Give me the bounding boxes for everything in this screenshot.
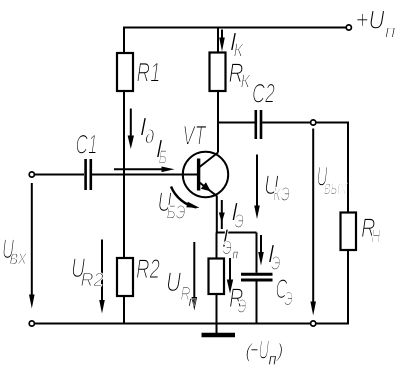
resistor RK [210,53,226,92]
resistor RN [341,213,357,251]
node bottom left terminal [29,321,34,326]
wire C2 to output node [262,122,311,124]
wire emitter vertical [216,196,218,233]
label RE [230,288,246,312]
label URp [168,272,191,300]
label IK [231,33,244,57]
wire right rail upper [347,122,349,213]
label Uvyx [318,167,347,194]
label IEp [223,229,232,254]
arrow IE emitter [219,200,225,229]
resistor R1 [117,53,133,91]
wire collector node to C2 [218,122,255,124]
label Id [141,118,154,144]
label -Up [246,341,282,362]
wire output node to right rail [316,122,349,124]
label UR2 [72,258,103,286]
wire C1 to base [92,174,197,176]
arrow Uvyx [310,129,316,316]
label Uvx [3,239,27,264]
wire RK bottom to collector [217,91,219,153]
capacitor C1 [86,159,91,190]
wire RE top lead [216,233,218,259]
node output terminal [311,120,316,125]
capacitor C2 [256,110,261,139]
arrow Uvx [29,183,35,309]
label UBE [159,192,185,218]
label R2 [137,259,160,278]
arrow IE through CE [258,235,264,266]
arrow IK [219,30,225,52]
ground stub [216,324,218,334]
ground [202,333,236,338]
label C1 [76,135,96,154]
arrow UBE curved [171,187,200,209]
resistor R2 [117,258,133,296]
label CE [276,279,292,305]
label C2 [253,84,275,103]
wire emitter split horizontal [217,232,257,234]
wire R2 bottom lead [123,296,125,324]
label +Up [357,11,395,38]
arrow IEp through RE [227,258,233,294]
transistor VT emitter lead [200,183,218,197]
wire R1 top lead [123,27,125,54]
wire CE top lead [256,233,258,273]
wire RE bottom lead [216,294,218,324]
arrow IB [114,167,175,173]
transistor VT circle [183,152,228,197]
wire right rail lower [347,250,349,324]
node bottom right terminal [311,321,316,326]
label RN [362,218,381,242]
arrow URp [192,242,198,311]
wire top rail [124,27,347,29]
arrow UR2 [99,240,105,314]
node +Up terminal [346,25,351,30]
capacitor CE [241,274,273,280]
label VT [184,126,207,145]
arrow UKE [254,155,260,220]
label UKE [266,175,290,200]
node input terminal [29,172,34,177]
label IE emitter [232,203,244,228]
wire input to C1 [34,174,84,176]
resistor RE [209,259,225,295]
wire divider mid (R1 bottom to R2 top) [123,91,125,258]
wire CE bottom lead [256,282,258,325]
label IB [157,140,167,164]
arrow Id [128,109,134,150]
transistor VT collector lead [200,153,219,168]
transistor VT emitter arrowhead [201,182,211,191]
label RK [229,63,251,87]
wire bottom rail left [34,323,311,325]
label IE through CE [269,245,281,270]
transistor VT base bar [197,159,200,191]
wire collector branch top [217,28,219,53]
wire bottom rail right [316,323,349,325]
label R1 [137,63,159,82]
